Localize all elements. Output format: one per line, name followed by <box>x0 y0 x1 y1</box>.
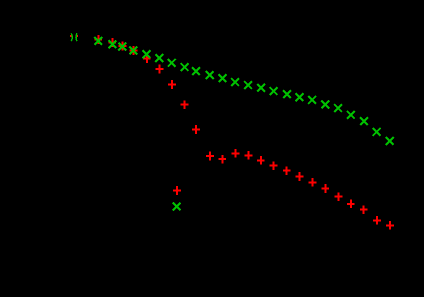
legend marker samples <box>173 186 181 210</box>
red plus-marker data series <box>94 35 394 230</box>
first data point cluster (overlapping red + and green x, occluded centre) <box>70 33 78 41</box>
green cross-marker data series <box>94 37 393 145</box>
